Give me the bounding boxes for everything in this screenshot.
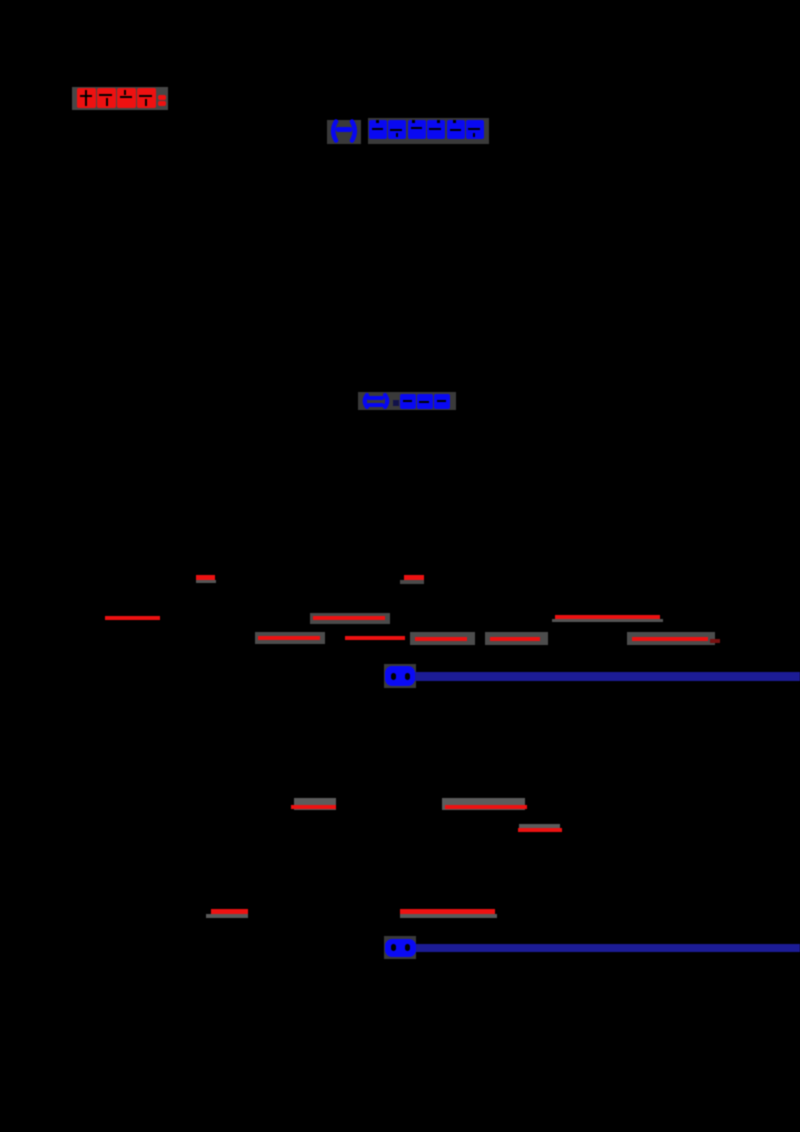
red title colon dot upper: [158, 95, 166, 100]
heading two bar upper: [367, 396, 384, 400]
heading three highlight box: [384, 664, 416, 688]
heading four blob hole right: [405, 944, 410, 951]
heading four rule line: [416, 944, 800, 952]
heading three rule line: [415, 672, 800, 681]
heading four blue blob: [385, 939, 416, 957]
row B red underline 2: [345, 636, 405, 640]
heading two char blobs: [400, 394, 416, 409]
heading two parens svg: [359, 393, 393, 409]
row D gray under 2: [400, 914, 497, 918]
row D red underline 2: [400, 909, 495, 914]
red title glyph 4: [137, 88, 156, 108]
heading three blob hole left: [391, 673, 396, 680]
red title glyph 1: [77, 88, 96, 108]
row D red underline 1: [211, 909, 248, 914]
heading two navy smudge: [393, 400, 399, 406]
red title glyph 3: [117, 88, 136, 108]
row D gray under 1: [206, 914, 248, 918]
mini red bar M1: [196, 575, 215, 580]
row C highlight 3: [519, 824, 560, 829]
row A gray under 3: [552, 619, 663, 622]
heading one char blobs: [369, 120, 387, 139]
heading three blob hole right: [405, 673, 410, 680]
heading four highlight box: [384, 936, 416, 959]
row C highlight 1: [294, 798, 336, 810]
row A red underline 1: [105, 616, 160, 620]
row B highlight 1: [255, 632, 325, 644]
row C highlight 2: [442, 798, 525, 810]
heading one parens svg: [326, 119, 362, 143]
mini gray bar under M2: [400, 580, 424, 584]
red title glyph 2: [97, 88, 116, 108]
red title colon dot lower: [158, 101, 166, 106]
row A red underline 2: [313, 616, 385, 620]
heading one text highlight box: [368, 118, 489, 144]
row C red strike 2: [445, 805, 527, 809]
row B dark red nub: [710, 639, 720, 643]
row B red underline 4: [490, 637, 540, 641]
red title highlight box: [72, 87, 168, 110]
heading two highlight box: [358, 392, 456, 410]
heading one paren highlight box: [327, 120, 361, 144]
row B highlight 3: [410, 632, 475, 645]
row A red underline 3: [555, 615, 660, 619]
heading three blue blob: [385, 666, 415, 686]
row B red underline 3: [415, 637, 467, 641]
mini red bar M2: [404, 575, 424, 580]
row A highlight 2: [310, 613, 390, 624]
mini gray bar under M1: [196, 580, 216, 583]
heading one dash bar: [336, 127, 352, 132]
row B highlight 5: [627, 632, 715, 645]
heading four blob hole left: [391, 944, 396, 951]
row B highlight 4: [485, 632, 548, 645]
row B red underline 5: [632, 637, 708, 641]
row B red underline 1: [258, 636, 320, 640]
row C red strike 1: [291, 805, 336, 809]
row C red strike 3: [518, 828, 562, 832]
heading two bar lower: [367, 403, 384, 407]
